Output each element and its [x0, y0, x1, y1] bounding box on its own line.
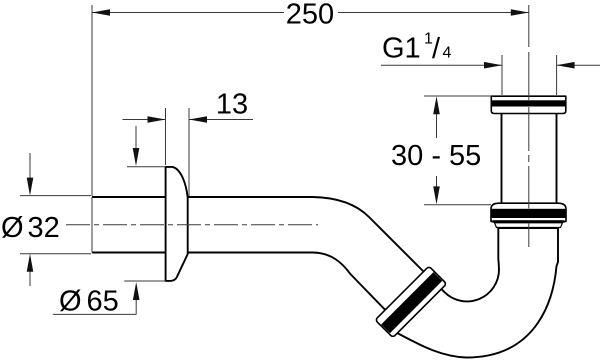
upper union nut G 1 1/4	[491, 96, 566, 113]
dimension 13 left arrowhead	[148, 116, 166, 123]
U-bend socket body	[388, 228, 558, 358]
dimension G1 1/4: extension and dimension lines	[381, 55, 600, 95]
svg-text:65: 65	[87, 286, 119, 318]
svg-text:Ø: Ø	[1, 212, 24, 244]
dimension 250: extension and dimension lines	[92, 5, 529, 196]
wall flange rosette	[166, 167, 188, 281]
upper nut knurl band	[491, 100, 567, 106]
svg-text:/: /	[432, 33, 441, 65]
svg-text:4: 4	[443, 45, 452, 62]
dimension 30-55 bottom arrowhead	[433, 186, 440, 204]
dimension 13: extension and dimension lines	[123, 108, 254, 196]
inlet pipe end cap at wall	[91, 197, 93, 253]
horizontal centerline of inlet pipe	[66, 224, 318, 226]
dimension diameter 65 top arrowhead	[133, 148, 140, 166]
dimension 250 right arrowhead	[511, 9, 529, 16]
lower slip nut on vertical tube	[491, 203, 566, 221]
dimension G1 1/4 left arrowhead	[484, 62, 502, 69]
dimension 250 left arrowhead	[92, 9, 110, 16]
lower nut joint ring	[493, 220, 565, 223]
dimension diameter 32 bottom arrowhead	[27, 254, 34, 272]
lower nut knurl band	[491, 209, 566, 218]
socket collar below lower nut	[495, 223, 563, 228]
dimension G1 1/4 right arrowhead	[557, 62, 575, 69]
svg-text:32: 32	[28, 212, 60, 244]
trap body: horizontal inlet pipe with 45-degree elbow to diagonal	[92, 197, 424, 310]
svg-text:Ø: Ø	[59, 286, 82, 318]
dimension diameter 65 bottom arrowhead	[133, 282, 140, 300]
dimension 30-55: extension and dimension lines	[424, 96, 491, 205]
dimension diameter 65: extension lines and leader	[53, 126, 166, 314]
svg-text:250: 250	[286, 0, 334, 30]
vertical centerline of outlet tube	[528, 5, 530, 47]
vertical telescopic outlet tube	[502, 110, 557, 205]
svg-text:G1: G1	[382, 33, 421, 65]
dimension 30-55 top arrowhead	[433, 96, 440, 114]
dimension diameter 32 top arrowhead	[27, 178, 34, 196]
svg-text:13: 13	[216, 89, 248, 121]
dimension diameter 32: extension lines	[20, 153, 91, 286]
diagonal slip nut	[375, 266, 446, 337]
svg-text:30 - 55: 30 - 55	[391, 140, 481, 172]
dimension 13 right arrowhead	[189, 116, 207, 123]
